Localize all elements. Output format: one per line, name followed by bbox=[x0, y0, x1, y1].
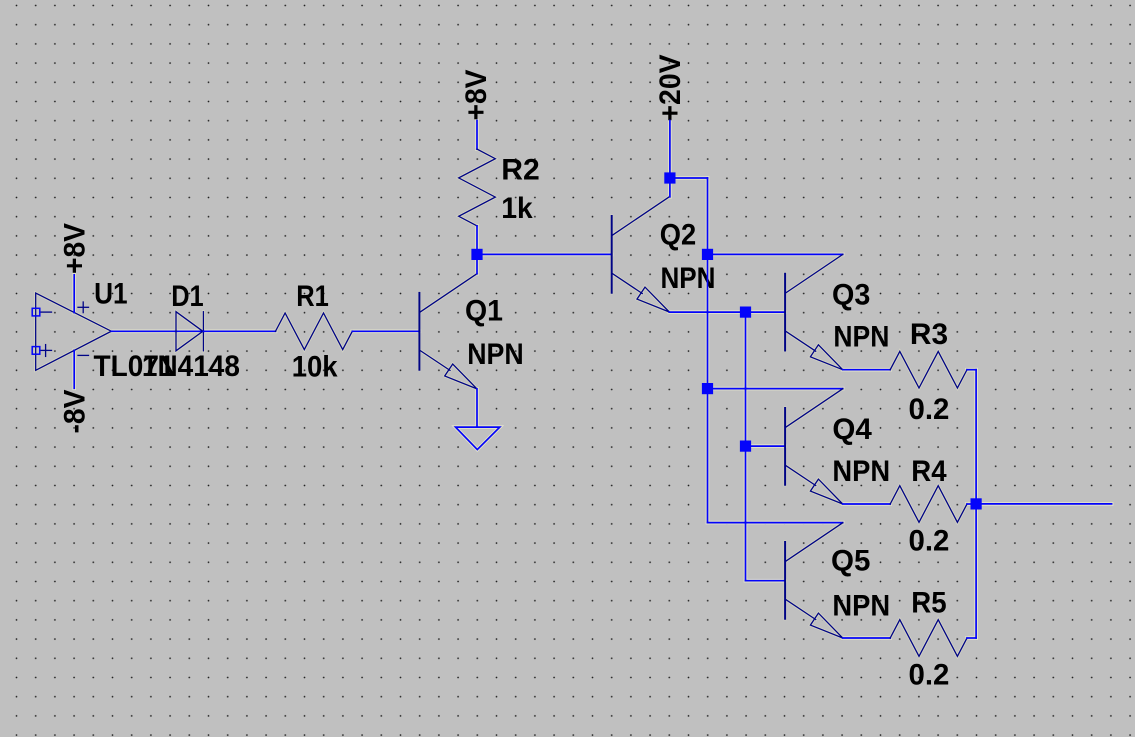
svg-text:Q2: Q2 bbox=[660, 219, 696, 252]
wire R4 to output junction bbox=[967, 503, 976, 505]
resistor R4 bbox=[890, 486, 967, 523]
wire Q4 emitter to R4 bbox=[843, 503, 891, 505]
svg-text:R5: R5 bbox=[911, 587, 946, 620]
wire +20V rail vertical bbox=[707, 178, 709, 523]
svg-text:10k: 10k bbox=[292, 351, 338, 384]
wire base rail vertical bbox=[745, 312, 747, 581]
svg-text:+8V: +8V bbox=[460, 69, 493, 120]
resistor R2 bbox=[459, 149, 496, 226]
svg-text:0.2: 0.2 bbox=[909, 659, 950, 692]
svg-text:1N4148: 1N4148 bbox=[142, 350, 240, 383]
junction Q2 emitter / base rail bbox=[740, 307, 751, 318]
svg-text:R1: R1 bbox=[296, 280, 329, 313]
svg-text:Q1: Q1 bbox=[465, 295, 503, 328]
junction output node bbox=[971, 498, 982, 509]
svg-text:1k: 1k bbox=[501, 192, 533, 225]
svg-text:NPN: NPN bbox=[832, 455, 890, 488]
wire rail to Q4 collector bbox=[708, 388, 843, 390]
op-amp U1 bbox=[36, 293, 112, 370]
svg-text:Q3: Q3 bbox=[832, 278, 870, 311]
wire U1 output to D1 anode (passes under D1 body) bbox=[111, 330, 203, 332]
svg-text:NPN: NPN bbox=[833, 321, 889, 354]
wire output bbox=[976, 503, 1112, 505]
wire R1 to Q1 base bbox=[352, 330, 419, 332]
svg-text:0.2: 0.2 bbox=[909, 524, 950, 557]
transistor Q4 bbox=[785, 389, 843, 504]
svg-text:-8V: -8V bbox=[59, 389, 92, 433]
resistor R3 bbox=[890, 351, 967, 388]
wire right tie vertical bbox=[975, 370, 977, 638]
svg-text:NPN: NPN bbox=[832, 589, 890, 622]
svg-text:NPN: NPN bbox=[467, 338, 524, 371]
wire R2 to node A junction bbox=[476, 226, 478, 255]
wire +8V to R2 bbox=[476, 121, 478, 150]
wire U1 V- pin to -8V bbox=[73, 350, 75, 388]
junction node A (R2 / Q1 collector / Q2 base) bbox=[471, 249, 482, 260]
ground bbox=[456, 427, 500, 450]
U1 unconnected non-inverting input pin square bbox=[32, 347, 40, 355]
svg-text:Q4: Q4 bbox=[832, 413, 872, 446]
resistor R5 bbox=[890, 620, 967, 657]
transistor Q1 bbox=[419, 274, 477, 389]
svg-text:+8V: +8V bbox=[59, 223, 92, 274]
wire Q1 collector stub bbox=[476, 254, 478, 273]
svg-text:0.2: 0.2 bbox=[909, 393, 950, 426]
wire +20V junction to rail corner bbox=[670, 177, 708, 179]
junction +20V / Q2 collector bbox=[664, 172, 675, 183]
wire base rail corner to Q5 base bbox=[746, 580, 786, 582]
wire node A to Q2 base bbox=[477, 253, 612, 255]
junction rail / Q3 collector bbox=[702, 249, 713, 260]
wire +8V to U1 V+ pin bbox=[73, 275, 75, 313]
diode D1 bbox=[176, 312, 203, 351]
svg-text:R2: R2 bbox=[501, 153, 540, 186]
transistor Q5 bbox=[785, 523, 843, 638]
svg-text:D1: D1 bbox=[171, 280, 204, 313]
wire D1 cathode to R1 bbox=[203, 330, 275, 332]
svg-text:+20V: +20V bbox=[654, 54, 687, 121]
wire Q3 emitter to R3 bbox=[843, 369, 891, 371]
transistor Q2 bbox=[612, 197, 670, 312]
wire rail to Q3 collector bbox=[708, 253, 843, 255]
svg-text:Q5: Q5 bbox=[831, 544, 870, 577]
wire rail corner to Q5 collector bbox=[708, 522, 843, 524]
wire Q1 emitter to ground bbox=[476, 389, 478, 427]
svg-text:R3: R3 bbox=[910, 318, 948, 351]
transistor Q3 bbox=[785, 255, 843, 370]
wire junction to Q2 collector bbox=[669, 178, 671, 197]
wire Q2 emitter to Q3 base bbox=[669, 311, 785, 313]
wire Q5 emitter to R5 bbox=[843, 637, 891, 639]
junction rail / Q4 collector bbox=[702, 383, 713, 394]
wire R3 to right tie bbox=[967, 369, 976, 371]
svg-text:R4: R4 bbox=[911, 455, 947, 488]
junction base rail / Q4 base bbox=[740, 441, 751, 452]
resistor R1 bbox=[276, 313, 353, 350]
wire R5 to right tie bbox=[967, 637, 976, 639]
U1 unconnected inverting input pin square bbox=[32, 308, 40, 316]
svg-text:U1: U1 bbox=[94, 278, 128, 311]
wire +20V down to junction bbox=[669, 121, 671, 179]
wire base rail to Q4 base bbox=[746, 445, 786, 447]
